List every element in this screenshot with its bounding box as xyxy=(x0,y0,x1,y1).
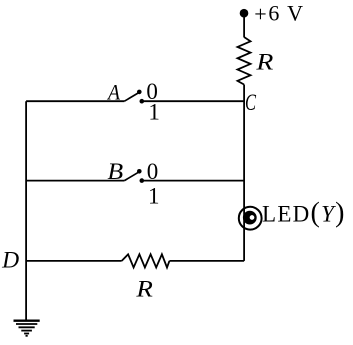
LED inner element xyxy=(243,211,257,225)
switch A contact 1 dot xyxy=(140,99,145,104)
ground xyxy=(14,321,40,336)
wire: switch A right segment to node C xyxy=(142,100,244,102)
resistor R2 (horizontal zigzag) xyxy=(122,254,170,267)
svg-text:LED(Y): LED(Y) xyxy=(262,198,345,229)
wire: switch B right segment to right rail xyxy=(142,180,244,182)
svg-text:R: R xyxy=(135,276,153,301)
switch B contact 1 dot xyxy=(140,178,145,183)
wire: node D horizontal left segment xyxy=(26,260,122,262)
wire: resistor R2 to right rail xyxy=(169,260,244,262)
supply terminal dot xyxy=(240,9,249,18)
wire: switch A left segment xyxy=(26,100,124,102)
resistor R1 (vertical zigzag) xyxy=(238,37,251,85)
wire: right rail from R1 down through node C, B junction, LED to bottom xyxy=(243,85,245,261)
svg-text:C: C xyxy=(245,90,256,115)
svg-text:D: D xyxy=(1,247,19,272)
switch B contact 0 dot xyxy=(137,169,142,174)
wire: left rail xyxy=(25,101,27,321)
svg-text:B: B xyxy=(107,159,123,184)
svg-text:R: R xyxy=(255,49,273,74)
wire: terminal to resistor R1 xyxy=(243,13,245,37)
svg-text:A: A xyxy=(106,79,120,104)
wire: switch B left segment xyxy=(26,180,124,182)
switch A blade xyxy=(124,92,139,101)
svg-text:1: 1 xyxy=(148,184,160,209)
svg-text:1: 1 xyxy=(148,100,160,125)
svg-text:+6 V: +6 V xyxy=(254,0,303,26)
switch A contact 0 dot xyxy=(137,90,142,95)
switch B blade xyxy=(124,172,139,181)
LED body circle xyxy=(239,207,262,230)
